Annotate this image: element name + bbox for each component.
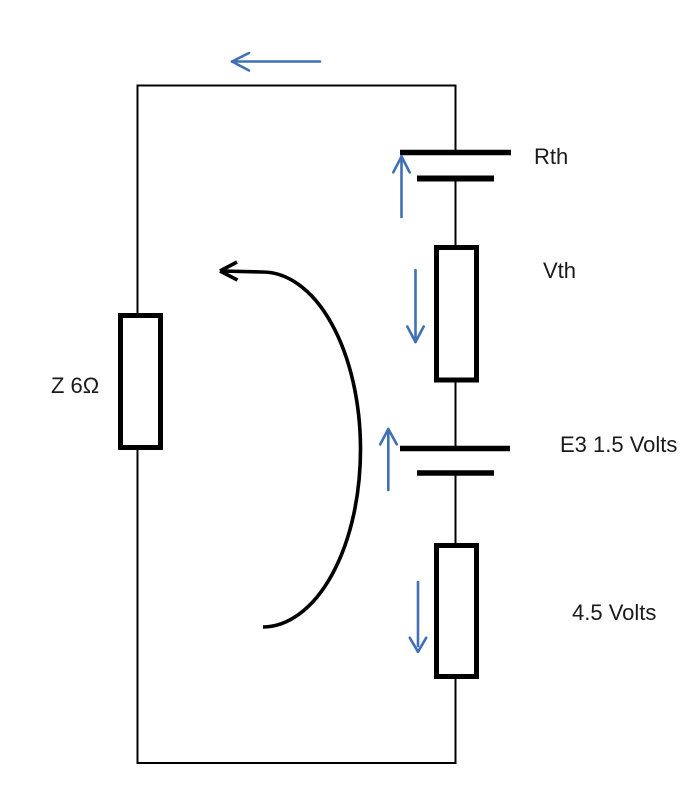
battery E3 short plate	[417, 470, 494, 476]
resistor 4.5 Volts	[437, 546, 477, 677]
svg-text:4.5 Volts: 4.5 Volts	[572, 600, 656, 625]
arrow down beside resistor 4.5 Volts (blue)	[410, 582, 426, 652]
wire left upper	[137, 85, 139, 314]
arrow up beside battery Rth (blue)	[393, 157, 409, 218]
wire right bottom segment	[455, 678, 457, 764]
battery E3 long plate	[400, 446, 510, 452]
svg-text:Rth: Rth	[534, 144, 568, 169]
wire top	[137, 85, 457, 87]
arrow up beside battery E3 (blue)	[380, 429, 397, 490]
wire right between Vth resistor and E3 battery	[455, 381, 457, 448]
svg-text:E3 1.5 Volts: E3 1.5 Volts	[560, 432, 677, 457]
current arrow top (blue, pointing left)	[232, 53, 320, 71]
wire left lower	[137, 450, 139, 764]
arrow down beside resistor Vth (blue)	[407, 270, 423, 342]
wire bottom	[137, 762, 457, 764]
wire right top segment	[455, 85, 457, 153]
loop direction arc arrow (black)	[220, 262, 361, 627]
battery Rth short plate	[417, 176, 494, 182]
wire right between Rth battery and Vth resistor	[455, 179, 457, 246]
resistor Z 6ohm	[121, 316, 161, 448]
svg-text:Vth: Vth	[543, 258, 576, 283]
battery Rth long plate	[400, 150, 511, 156]
resistor Vth	[437, 248, 477, 381]
wire right between E3 battery and 4.5V resistor	[455, 473, 457, 544]
svg-text:Z 6Ω: Z 6Ω	[51, 373, 99, 398]
